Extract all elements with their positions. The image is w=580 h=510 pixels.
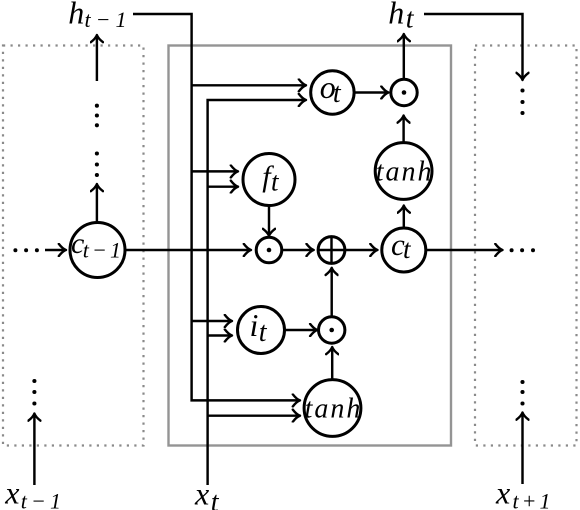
svg-text:h: h	[68, 0, 84, 30]
svg-text:t−1: t−1	[83, 238, 125, 263]
svg-text:t: t	[211, 487, 220, 510]
svg-text:t: t	[406, 4, 415, 35]
svg-text:t+1: t+1	[513, 489, 554, 510]
svg-text:x: x	[194, 476, 209, 510]
svg-text:tanh: tanh	[305, 393, 363, 424]
svg-text:t−1: t−1	[21, 489, 66, 510]
svg-text:t−1: t−1	[85, 7, 132, 32]
svg-text:x: x	[4, 475, 19, 510]
svg-text:i: i	[250, 307, 259, 343]
svg-text:tanh: tanh	[376, 156, 434, 187]
svg-text:t: t	[259, 317, 268, 348]
svg-text:t: t	[333, 78, 342, 109]
svg-text:x: x	[495, 475, 510, 510]
svg-text:h: h	[388, 0, 404, 30]
